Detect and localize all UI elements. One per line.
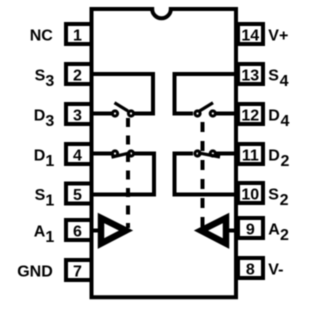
driver triangle U1B (A2): [201, 218, 226, 244]
switch SW4 lever: [200, 103, 214, 111]
svg-text:4: 4: [281, 113, 290, 130]
wire D1 stub (pin 4 to switch SW1 left contact): [93, 152, 112, 156]
svg-text:S: S: [268, 68, 279, 85]
svg-text:3: 3: [73, 108, 82, 125]
svg-text:1: 1: [45, 193, 54, 210]
wire D3 stub (pin 3 to switch SW3 left contact): [93, 112, 112, 116]
pin 12 box: [238, 104, 263, 124]
svg-text:D: D: [34, 148, 46, 165]
svg-text:D: D: [268, 148, 280, 165]
wire S4 loop (pin 13 to switch SW4 left contact): [175, 74, 235, 114]
svg-text:NC: NC: [30, 28, 54, 45]
wire S3 loop (pin 2 to switch SW3 right contact): [93, 74, 153, 114]
svg-text:9: 9: [246, 222, 255, 239]
switch SW3 left contact: [112, 111, 117, 116]
pin 9 box: [238, 218, 263, 238]
svg-text:8: 8: [246, 262, 255, 279]
wire D2 stub (pin 11 to switch SW2 right contact): [216, 152, 235, 156]
svg-text:5: 5: [73, 187, 82, 204]
svg-text:D: D: [34, 108, 46, 125]
svg-text:2: 2: [281, 153, 290, 170]
switch SW4 left contact: [195, 111, 200, 116]
svg-text:D: D: [268, 108, 280, 125]
svg-text:V+: V+: [268, 28, 288, 45]
svg-text:3: 3: [45, 73, 54, 90]
svg-text:7: 7: [73, 264, 82, 281]
svg-text:GND: GND: [17, 264, 53, 281]
wire S1 loop (switch SW1 right contact to pin 5): [93, 154, 154, 195]
pin 10 box: [238, 183, 263, 203]
driver triangle U1A (A1): [101, 218, 126, 244]
svg-text:A: A: [34, 224, 46, 241]
svg-text:14: 14: [241, 28, 259, 45]
pin 1 box: [66, 24, 92, 44]
svg-text:1: 1: [73, 28, 82, 45]
switch SW1 lever: [112, 153, 131, 157]
switch SW3 lever: [115, 103, 129, 111]
wire A1 stub (pin 6 to driver U1A): [93, 229, 101, 233]
pin 11 box: [238, 144, 263, 164]
svg-text:10: 10: [241, 187, 259, 204]
IC package body U1 (14-pin DIP outline with notch): [92, 9, 237, 297]
pin 5 box: [66, 184, 92, 204]
pin 4 box: [66, 144, 92, 164]
switch SW1 left contact: [112, 151, 117, 156]
switch SW2 left contact: [195, 151, 200, 156]
pin 2 box: [66, 64, 92, 84]
svg-text:12: 12: [241, 108, 259, 125]
pin 13 box: [238, 64, 263, 84]
svg-text:11: 11: [242, 148, 259, 165]
wire S2 loop (switch SW2 left contact to pin 10): [175, 154, 235, 195]
wire A2 stub (pin 9 to driver U1B): [227, 229, 235, 233]
svg-text:3: 3: [45, 113, 54, 130]
svg-text:6: 6: [73, 224, 82, 241]
dashed control line CL2 (driver U1B to SW4/SW2): [201, 122, 205, 228]
svg-text:2: 2: [73, 68, 82, 85]
switch SW2 right contact: [210, 151, 215, 156]
dashed control line CL1 (driver U1A to SW3/SW1): [126, 118, 130, 228]
switch SW2 lever: [198, 153, 220, 157]
svg-text:2: 2: [280, 227, 289, 244]
switch SW4 right contact: [210, 111, 215, 116]
svg-text:4: 4: [280, 73, 289, 90]
svg-text:S: S: [35, 68, 46, 85]
svg-text:V-: V-: [268, 262, 283, 279]
svg-text:A: A: [268, 222, 280, 239]
svg-text:4: 4: [73, 148, 82, 165]
svg-text:S: S: [35, 187, 46, 204]
pin 7 box: [66, 260, 92, 280]
svg-text:2: 2: [280, 192, 289, 209]
pin 6 box: [66, 220, 92, 240]
wire D4 stub (pin 12 to switch SW4 right contact): [216, 112, 235, 116]
switch SW3 right contact: [128, 111, 133, 116]
svg-text:1: 1: [45, 153, 54, 170]
pin 14 box: [238, 24, 263, 44]
svg-text:13: 13: [241, 68, 259, 85]
switch SW1 right contact: [128, 151, 133, 156]
pin 3 box: [66, 104, 92, 124]
svg-text:S: S: [268, 187, 279, 204]
svg-text:1: 1: [45, 229, 54, 246]
pin 8 box: [238, 258, 263, 278]
